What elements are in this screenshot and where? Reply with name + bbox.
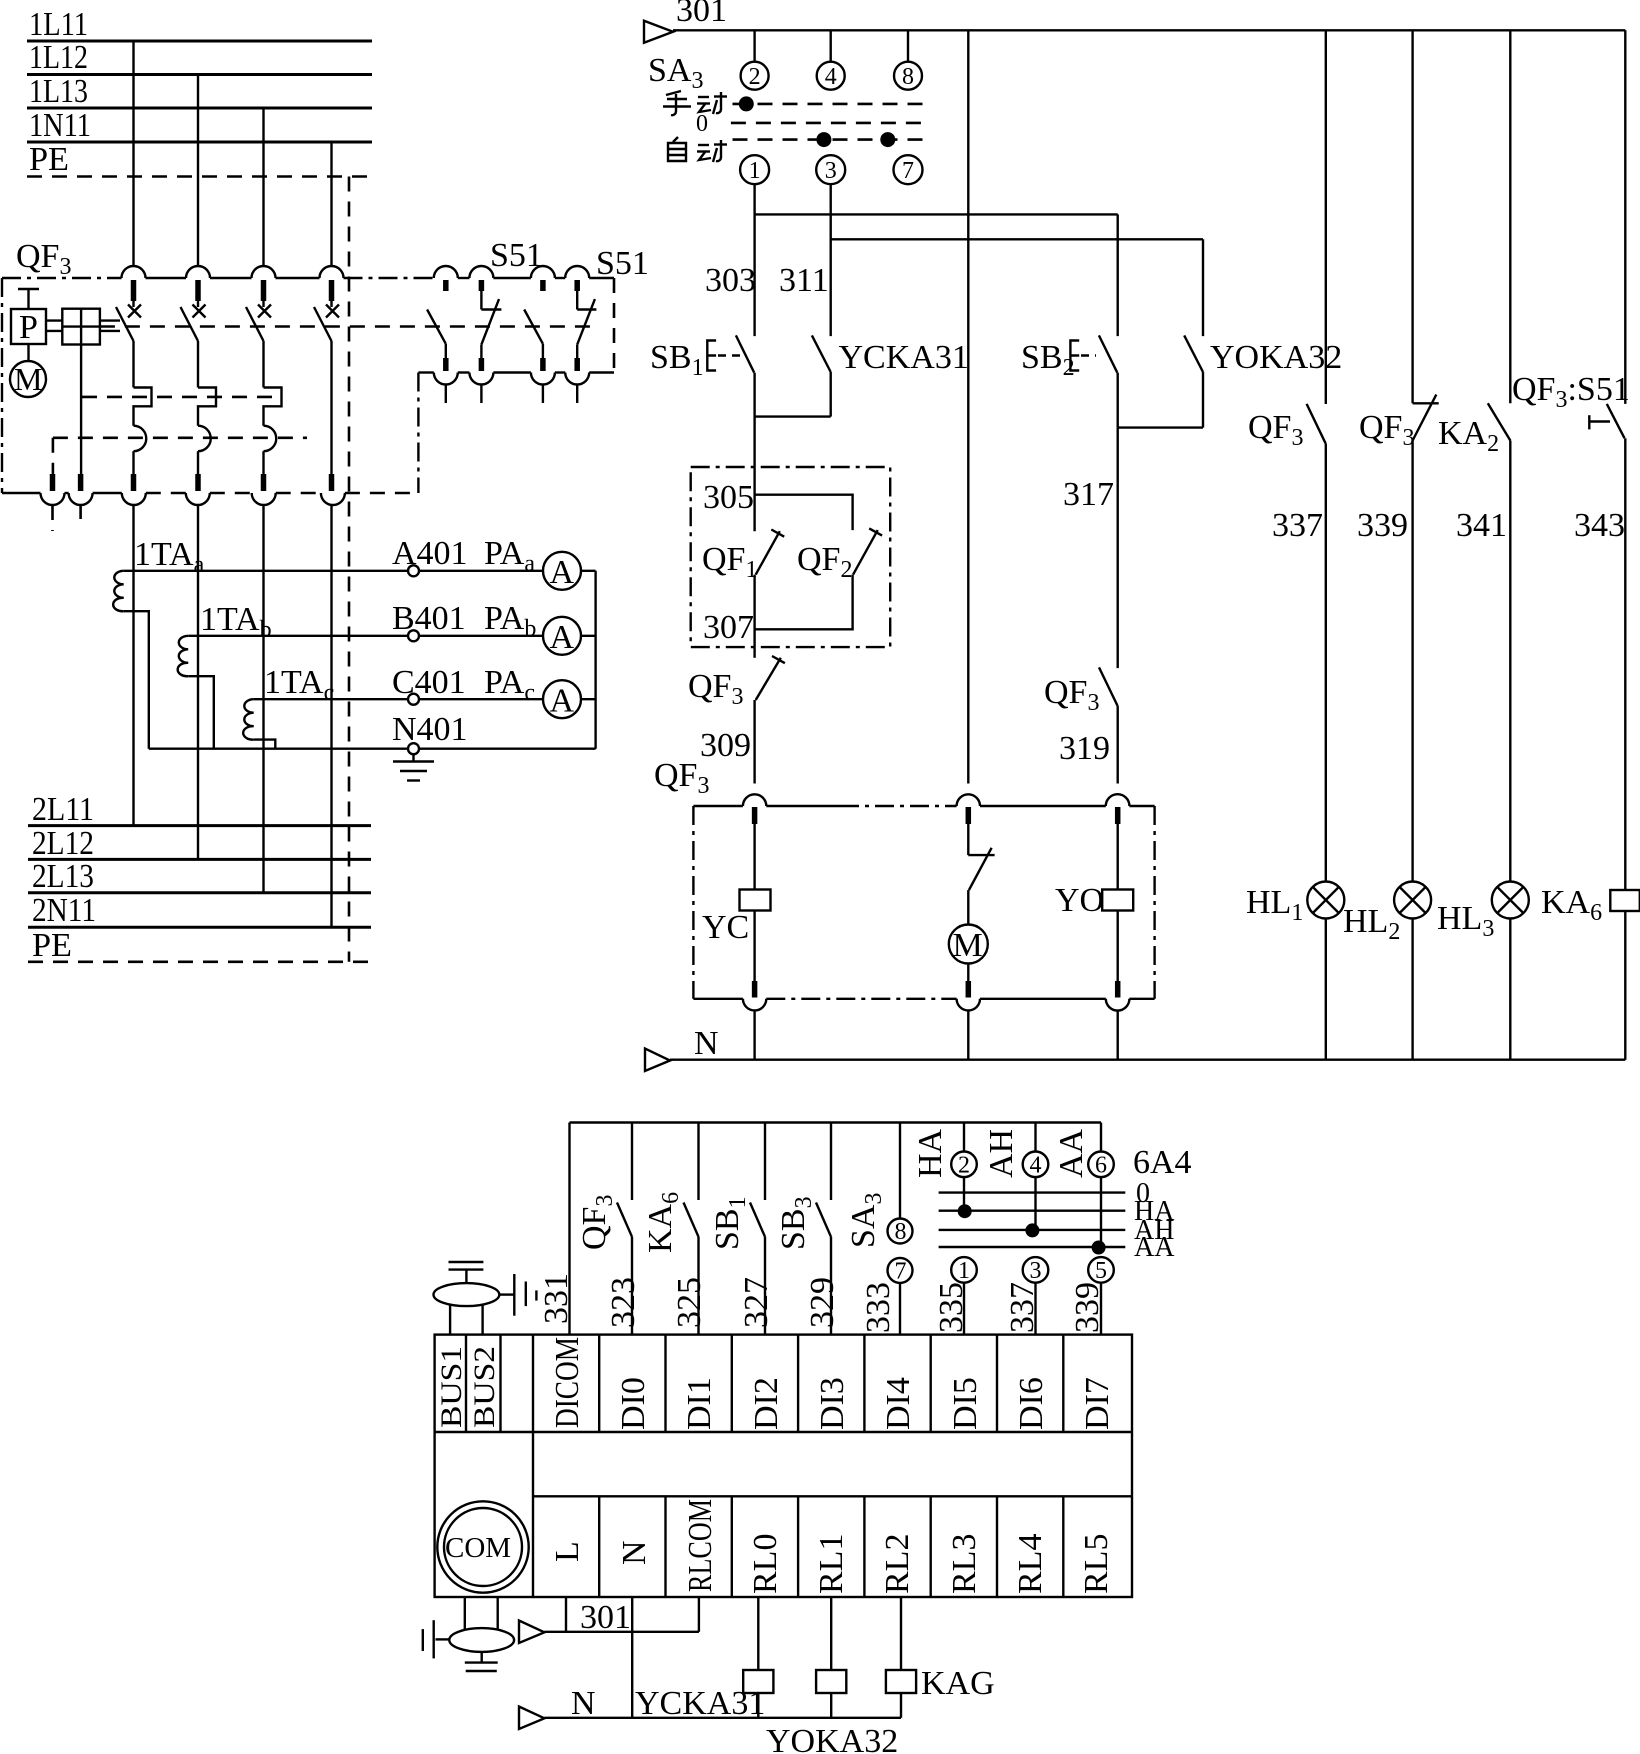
svg-text:RLCOM: RLCOM: [682, 1499, 719, 1592]
boundary BUS section divider: [532, 1335, 534, 1597]
label wire number 311: [779, 262, 829, 299]
wire open stub below S51 c4: [576, 385, 578, 404]
node 301 arrow: [644, 0, 727, 43]
contact SB1 on DI2: [709, 1123, 765, 1335]
wire pole 1 to bottom terminal: [132, 451, 134, 474]
wire dashed stub below aux1: [51, 505, 54, 531]
node 1L12: [29, 39, 88, 76]
svg-text:1L13: 1L13: [29, 73, 88, 110]
terminal DI4: [864, 1335, 917, 1432]
svg-text:2L12: 2L12: [32, 825, 94, 862]
wire HL1 to N: [1325, 919, 1327, 1060]
svg-text:RL1: RL1: [813, 1534, 850, 1594]
boundary row divider upper: [435, 1431, 1132, 1433]
wire branch to SB2 column: [755, 213, 1118, 215]
svg-text:A: A: [550, 683, 575, 720]
motor M branch with cutoff contact: [949, 807, 995, 998]
svg-text:N: N: [571, 1685, 596, 1722]
ammeter PAc: [484, 664, 581, 720]
svg-text:AA: AA: [1053, 1128, 1090, 1178]
selector 6A4 contact 4-3 on DI6: [983, 1123, 1048, 1335]
wire A401 line: [124, 570, 596, 572]
label wire number 343: [1574, 507, 1625, 544]
svg-text:C401: C401: [392, 664, 466, 701]
wire 337 to HL1: [1325, 444, 1327, 882]
label wire number 337: [1272, 507, 1323, 544]
wire 317 down: [1116, 428, 1118, 668]
wire KA6 to N: [1624, 911, 1626, 1060]
protection unit P box: [11, 309, 46, 346]
wire S51 bottom bus with terminals: [418, 371, 614, 373]
label wire number 303: [705, 262, 756, 299]
terminal stub aux1: [50, 474, 56, 491]
wire 2L12 bus: [28, 858, 371, 861]
wire PE dashed vertical run to bottom PE: [348, 177, 351, 962]
terminal DI5: [931, 1335, 984, 1432]
boundary interlock dash-dot box: [691, 467, 891, 647]
wire drop 1L11 to QF3 pole1: [132, 41, 134, 267]
wire pole 2 to bottom terminal: [197, 451, 199, 474]
lamp HL2: [1343, 882, 1431, 946]
breaker QF3 pole 4 contact: [314, 280, 339, 341]
wire 1TAc coil bottom tap: [254, 740, 276, 749]
svg-text:YOKA32: YOKA32: [766, 1723, 898, 1754]
svg-text:4: 4: [1030, 1153, 1042, 1179]
svg-text:QF3:S51: QF3:S51: [1512, 371, 1630, 413]
terminal bump YC bottom: [743, 999, 766, 1011]
node 2L13: [32, 858, 94, 895]
wire pole1 down to 2L11: [132, 505, 134, 826]
trip bar dashed thermal row: [82, 396, 282, 399]
breaker aux contact QF3 NC (339): [1359, 395, 1439, 451]
selector 6A4 contact 2-1 on DI5: [912, 1123, 977, 1335]
switch 6A4 label: [1133, 1144, 1192, 1181]
svg-text:343: 343: [1574, 507, 1625, 544]
terminal bump S51 c1 bottom: [434, 373, 458, 385]
ground at N401: [393, 754, 434, 780]
wire QF1 to box bottom: [753, 575, 755, 648]
svg-text:RL3: RL3: [946, 1534, 983, 1594]
svg-text:RL2: RL2: [879, 1534, 916, 1594]
svg-text:BUS2: BUS2: [468, 1346, 501, 1428]
svg-text:2: 2: [749, 64, 761, 90]
CT 1TAb secondary coil: [178, 636, 189, 676]
wire open stub below S51 c2: [480, 385, 482, 404]
wire 2L11 bus: [28, 824, 371, 827]
svg-text:8: 8: [895, 1219, 907, 1245]
terminal RL4: [997, 1496, 1049, 1597]
svg-text:331: 331: [538, 1273, 575, 1324]
label wire number 325 rotated: [671, 1277, 708, 1328]
terminal bump YC top: [743, 794, 766, 806]
svg-text:317: 317: [1063, 476, 1114, 513]
svg-text:YCKA31: YCKA31: [839, 339, 969, 376]
svg-text:333: 333: [860, 1282, 897, 1333]
wire 341 to HL3: [1509, 441, 1511, 882]
ground at COM shield: [465, 1663, 498, 1671]
node 2N11: [32, 892, 96, 929]
operating head T symbol: [18, 289, 39, 309]
node 2L12: [32, 825, 94, 862]
wire pole 4 to bottom terminal: [330, 341, 332, 474]
node 1N11: [29, 107, 91, 144]
position contact QF3:S51 (343): [1512, 371, 1630, 438]
wire C401 line: [254, 698, 596, 700]
switch S51 label left group: [490, 237, 543, 274]
wire N bottom bus: [544, 1717, 901, 1719]
magnetic trip coil pole 3: [264, 426, 277, 452]
svg-text:2: 2: [958, 1153, 970, 1179]
wire branch to YOKA32 column: [831, 238, 1203, 240]
label wire number 307: [703, 609, 754, 646]
svg-text:COM: COM: [445, 1532, 511, 1564]
CT 1TAb label: [200, 601, 272, 643]
CT 1TAc secondary coil: [243, 699, 254, 739]
terminal RL2: [864, 1496, 916, 1597]
terminal RL1: [798, 1496, 850, 1597]
coil YO (opening): [1055, 807, 1133, 998]
svg-text:337: 337: [1004, 1282, 1041, 1333]
svg-text:5: 5: [1095, 1258, 1107, 1284]
terminal stub pole 4 bottom: [329, 474, 335, 491]
wire pole 3 to thermal element: [262, 341, 264, 388]
svg-text:6A4: 6A4: [1133, 1144, 1192, 1181]
wire 301 long drop to M terminal: [967, 30, 969, 783]
wire 319 to YO terminal: [1116, 706, 1118, 783]
svg-text:KAG: KAG: [921, 1665, 995, 1702]
shield symbol at BUS1/BUS2: [434, 1262, 500, 1335]
boundary QF3 box top edge with terminals: [2, 277, 434, 279]
svg-text:323: 323: [605, 1277, 642, 1328]
boundary QF3 box bottom edge with terminals: [2, 492, 418, 494]
wire 303 from SA3-1 down to SB1: [753, 184, 755, 336]
shield symbol at COM: [449, 1597, 514, 1663]
svg-text:A401: A401: [392, 535, 468, 572]
breaker aux contact QF3 (337): [1248, 404, 1326, 451]
svg-text:1L12: 1L12: [29, 39, 88, 76]
magnetic trip coil pole 1: [134, 426, 147, 452]
boundary controller outer box: [435, 1335, 1132, 1597]
breaker QF3 device label: [654, 757, 709, 799]
svg-text:2L11: 2L11: [32, 791, 94, 828]
terminal bump QF3 pole1 bottom: [122, 493, 146, 505]
terminal stub pole 2 bottom: [195, 474, 201, 491]
wire M to N: [967, 1011, 969, 1060]
svg-text:335: 335: [933, 1282, 970, 1333]
wire 1N11 bus: [27, 141, 372, 144]
wire 1TAa coil bottom tap: [124, 611, 149, 749]
wire pole3 down to 2L13: [262, 505, 264, 893]
breaker aux contact QF1: [702, 530, 784, 584]
terminal RL3: [931, 1496, 983, 1597]
svg-text:RL5: RL5: [1078, 1534, 1115, 1594]
svg-text:N401: N401: [392, 711, 468, 748]
wire column 339 from 301: [1411, 30, 1413, 403]
terminal bump S51 c4 top: [565, 266, 589, 278]
6A4 position row AA: [939, 1232, 1176, 1263]
terminal bump YO bottom: [1106, 999, 1130, 1011]
SA3 position row manual dashed: [733, 103, 924, 106]
terminal BUS2: [468, 1335, 501, 1432]
svg-text:339: 339: [1069, 1282, 1106, 1333]
svg-text:DICOM: DICOM: [549, 1337, 586, 1428]
node PE (top): [29, 141, 69, 178]
svg-text:329: 329: [804, 1277, 841, 1328]
svg-text:M: M: [953, 927, 983, 964]
svg-text:303: 303: [705, 262, 756, 299]
wire PE bus dashed: [27, 175, 372, 178]
wire cross box to aux2 terminal: [80, 345, 82, 475]
label 0 (off position): [696, 111, 708, 137]
node N401 terminal: [392, 711, 468, 754]
label wire number 327 rotated: [738, 1277, 775, 1328]
overload thermal element pole 2: [198, 388, 216, 426]
terminal stub aux2: [78, 474, 84, 491]
svg-text:1L11: 1L11: [29, 6, 88, 43]
wire 301 to SA3 contact 2: [753, 30, 755, 61]
svg-text:PE: PE: [29, 141, 69, 178]
overload thermal element pole 3: [264, 388, 282, 426]
label wire number 333 rotated: [860, 1282, 897, 1333]
node A401 terminal: [392, 535, 468, 576]
terminal bump S51 c1 top: [434, 266, 458, 278]
terminal bump M top: [957, 794, 980, 806]
terminal RLCOM: [666, 1496, 720, 1597]
terminal DI0: [599, 1335, 652, 1432]
wire HL2 to N: [1411, 919, 1413, 1060]
terminal bump S51 c3 bottom: [531, 373, 555, 385]
label wire number 337 rotated: [1004, 1282, 1041, 1333]
wire ammeter right bus: [594, 571, 596, 749]
terminal L: [549, 1541, 586, 1562]
label wire number 319: [1059, 730, 1110, 767]
contact YOKA32 (DO relay): [1184, 335, 1342, 376]
svg-text:3: 3: [825, 158, 837, 184]
svg-text:1N11: 1N11: [29, 107, 91, 144]
breaker aux contact QF3 (319): [1044, 667, 1118, 716]
wire 309 to device box: [753, 700, 755, 784]
wire column 341 from 301: [1509, 30, 1511, 403]
svg-text:309: 309: [700, 727, 751, 764]
wire inside box to branch: [753, 467, 755, 531]
pin SA3 terminal 8: [894, 62, 922, 90]
label wire number 341: [1456, 507, 1507, 544]
svg-text:1: 1: [958, 1258, 970, 1284]
label wire number 317: [1063, 476, 1114, 513]
wire SB2/YOKA32 junction bar: [1118, 372, 1203, 428]
wire pole 1 to thermal element: [132, 341, 134, 388]
terminal BUS1: [435, 1335, 468, 1432]
svg-text:2N11: 2N11: [32, 892, 96, 929]
svg-text:DI7: DI7: [1079, 1377, 1116, 1430]
svg-text:7: 7: [902, 158, 914, 184]
node PE (bottom): [32, 927, 72, 964]
svg-text:327: 327: [738, 1277, 775, 1328]
wire 1L13 bus: [27, 107, 372, 110]
contact QF3 on DI0: [576, 1123, 632, 1335]
svg-text:DI3: DI3: [814, 1377, 851, 1430]
wire drop 1L12 to QF3 pole2: [197, 75, 199, 267]
breaker QF3 pole 1 contact: [116, 280, 141, 341]
contact S51 c3 NO: [524, 280, 543, 371]
switch S51 label right group: [596, 245, 649, 282]
wire drop 1N11 to QF3 pole4: [330, 142, 332, 267]
wire DICOM 331: [568, 1123, 570, 1335]
label wire number 323 rotated: [605, 1277, 642, 1328]
breaker QF3 label: [16, 238, 71, 280]
wire YO to N: [1116, 1011, 1118, 1060]
trip bar dashed magnetic row: [53, 436, 307, 439]
node B401 terminal: [392, 600, 466, 641]
svg-text:325: 325: [671, 1277, 708, 1328]
svg-text:4: 4: [825, 64, 837, 90]
wire column 343 from 301: [1624, 30, 1626, 404]
terminal DI6: [997, 1335, 1050, 1432]
pin SA3 terminal 1: [740, 155, 769, 184]
wire column 337 from 301: [1325, 30, 1327, 404]
wire YC to N: [753, 1011, 755, 1060]
terminal DICOM: [549, 1337, 586, 1428]
wire pole4 down to 2N11: [330, 505, 332, 927]
svg-text:S51: S51: [596, 245, 649, 282]
wire N terminal drop: [631, 1597, 633, 1718]
terminal bump QF3 pole3 top: [252, 266, 276, 278]
wire 339 to HL2: [1411, 441, 1413, 882]
overload thermal element pole 1: [134, 388, 152, 426]
terminal bump S51 c4 bottom: [565, 373, 589, 385]
label wire number 335 rotated: [933, 1282, 970, 1333]
lamp HL1: [1246, 882, 1344, 927]
boundary device box bottom edge: [693, 998, 1154, 1000]
svg-text:A: A: [550, 554, 575, 591]
label wire number 339: [1357, 507, 1408, 544]
svg-text:301: 301: [676, 0, 727, 29]
svg-text:RL4: RL4: [1012, 1534, 1049, 1594]
node 2L11: [32, 791, 94, 828]
wire 301 bus: [673, 29, 1625, 31]
breaker aux contact QF3 (below box): [688, 647, 785, 710]
wire open stub below S51 c3: [542, 385, 544, 404]
breaker aux contact QF2: [797, 528, 882, 583]
svg-text:DI1: DI1: [681, 1377, 718, 1430]
contact KA6 on DI1: [642, 1123, 699, 1335]
terminal bump QF3 aux1 bottom: [41, 493, 65, 505]
svg-text:N: N: [616, 1540, 653, 1565]
svg-text:305: 305: [703, 479, 754, 516]
wire dashed stub below aux2: [79, 505, 82, 519]
terminal bump QF3 pole3 bottom: [252, 493, 276, 505]
contact S51 c1 NO: [427, 280, 446, 371]
terminal DI7: [1063, 1335, 1116, 1432]
wire PE bottom bus dashed: [28, 960, 371, 963]
contact SB3 on DI3: [775, 1123, 831, 1335]
pin SA3 terminal 4: [817, 62, 845, 90]
wire pole2 down to 2L12: [197, 505, 199, 859]
terminal bump M bottom: [957, 999, 980, 1011]
breaker QF3 pole 3 contact: [246, 280, 271, 341]
svg-text:AA: AA: [1134, 1232, 1175, 1263]
pin SA3 terminal 3: [816, 155, 845, 184]
svg-text:1: 1: [749, 158, 761, 184]
boundary device box right edge: [1153, 806, 1155, 999]
svg-text:PE: PE: [32, 927, 72, 964]
wire 343 to KA6 coil: [1624, 438, 1626, 890]
svg-text:YO: YO: [1055, 882, 1104, 919]
relay coil KAG on RL2: [886, 1597, 995, 1718]
trip bar dashed through contacts: [100, 325, 595, 328]
lamp HL3: [1437, 882, 1529, 943]
svg-text:6: 6: [1095, 1153, 1107, 1179]
terminal bump QF3 pole2 top: [186, 266, 210, 278]
SA3 position row auto dashed: [733, 138, 924, 141]
label wire number 305: [703, 479, 754, 516]
selector switch SA3 label: [648, 52, 703, 94]
svg-text:DI2: DI2: [748, 1377, 785, 1430]
SA3 closed dot manual-2: [739, 96, 754, 111]
svg-text:RL0: RL0: [747, 1534, 784, 1594]
wire 1L12 bus: [27, 73, 372, 76]
pin SA3 terminal 2: [741, 62, 769, 90]
CT 1TAc label: [264, 664, 334, 706]
terminal bump S51 c2 top: [469, 266, 493, 278]
boundary S51 top edge with terminals: [458, 277, 614, 279]
label shou-dong (manual) hand-drawn glyphs: [663, 91, 727, 115]
terminal stub pole 1 bottom: [131, 474, 137, 491]
boundary S51 right edge dashed: [613, 278, 616, 373]
svg-text:8: 8: [902, 64, 914, 90]
6A4 position row 0: [939, 1178, 1150, 1209]
svg-text:337: 337: [1272, 507, 1323, 544]
wire 2L13 bus: [28, 891, 371, 894]
6A4 position row HA: [939, 1196, 1176, 1227]
node N arrow (bottom): [519, 1685, 596, 1729]
wire P to M: [27, 344, 29, 361]
wire 2N11 bus: [28, 926, 371, 929]
terminal DI3: [798, 1335, 851, 1432]
wire pole 3 to bottom terminal: [262, 451, 264, 474]
breaker QF3 pole 2 contact: [181, 280, 206, 341]
label wire number 331 rotated: [538, 1273, 575, 1324]
node C401 terminal: [392, 664, 466, 705]
magnetic trip coil pole 2: [198, 426, 211, 452]
terminal bump QF3 pole4 bottom: [321, 493, 345, 505]
label wire number 339 rotated: [1069, 1282, 1106, 1333]
svg-text:A: A: [550, 619, 575, 656]
terminal bump QF3 pole4 top: [320, 266, 344, 278]
node 301 arrow (bottom): [519, 1599, 631, 1643]
SA3 position row 0 dashed: [731, 122, 923, 125]
svg-text:7: 7: [895, 1259, 907, 1285]
label wire number 309: [700, 727, 751, 764]
wire open stub below S51 c1: [445, 385, 447, 404]
capacitor at COM shield left: [423, 1620, 450, 1658]
wire pole 2 to thermal element: [197, 341, 199, 388]
CT 1TAa label: [134, 536, 205, 578]
contact S51 c4 NC: [577, 280, 596, 371]
svg-text:319: 319: [1059, 730, 1110, 767]
SA3 closed dot auto-4: [816, 132, 831, 147]
selector SA3 contacts 8-7 on DI4: [845, 1123, 913, 1335]
wire N401 line: [149, 748, 596, 750]
wire SB1/YCKA31 junction bar: [755, 372, 831, 467]
svg-text:YOKA32: YOKA32: [1210, 339, 1342, 376]
svg-text:301: 301: [580, 1599, 631, 1636]
relay coil KA6: [1541, 884, 1640, 926]
wire 1L11 bus: [27, 40, 372, 43]
wire 301 link L RLCOM: [544, 1597, 699, 1632]
wire 301 to SA3 contact 4: [830, 30, 832, 61]
wire branch bottom from QF2: [755, 575, 853, 630]
